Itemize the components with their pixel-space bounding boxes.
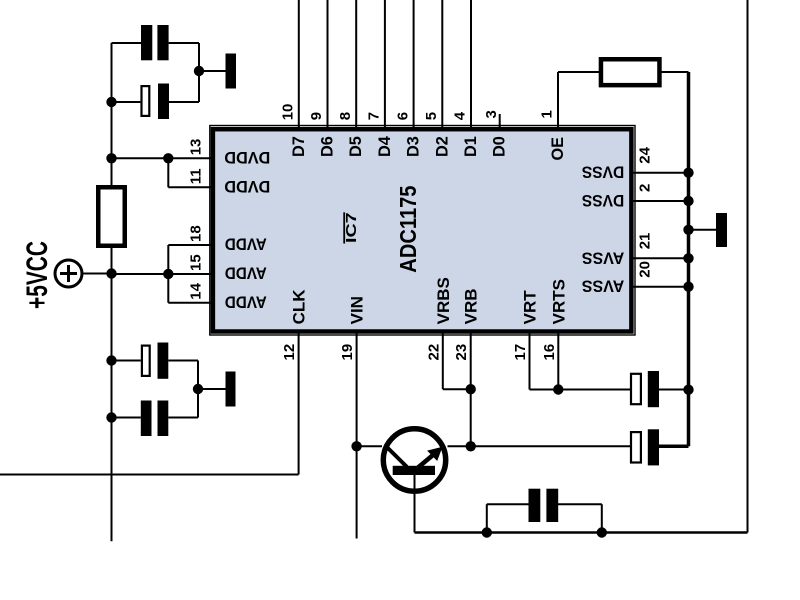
- svg-text:19: 19: [339, 344, 356, 361]
- svg-text:ADC1175: ADC1175: [395, 185, 421, 272]
- svg-text:D7: D7: [290, 136, 308, 157]
- svg-text:VIN: VIN: [348, 296, 367, 324]
- svg-text:22: 22: [425, 344, 442, 361]
- svg-text:D3: D3: [405, 136, 423, 157]
- svg-text:AVSS: AVSS: [582, 277, 625, 296]
- svg-text:CLK: CLK: [290, 289, 309, 325]
- svg-text:10: 10: [280, 104, 297, 121]
- svg-text:D0: D0: [491, 136, 509, 157]
- svg-text:20: 20: [637, 261, 654, 278]
- svg-text:VRBS: VRBS: [434, 277, 453, 324]
- svg-text:D2: D2: [433, 136, 451, 157]
- svg-text:21: 21: [637, 233, 654, 250]
- svg-text:DVSS: DVSS: [582, 163, 625, 182]
- svg-text:24: 24: [637, 146, 654, 163]
- svg-text:AVDD: AVDD: [225, 235, 267, 254]
- svg-text:15: 15: [188, 254, 205, 271]
- svg-text:3: 3: [483, 110, 500, 118]
- svg-text:4: 4: [452, 111, 469, 120]
- svg-text:D4: D4: [376, 136, 394, 157]
- svg-text:AVDD: AVDD: [225, 264, 267, 283]
- svg-text:VRT: VRT: [521, 290, 540, 325]
- svg-text:13: 13: [188, 139, 205, 156]
- svg-text:VRTS: VRTS: [549, 279, 568, 324]
- svg-text:AVDD: AVDD: [225, 292, 267, 311]
- svg-text:18: 18: [188, 225, 205, 242]
- svg-text:2: 2: [637, 184, 654, 192]
- svg-text:16: 16: [541, 344, 558, 361]
- svg-text:D5: D5: [347, 136, 365, 157]
- svg-text:12: 12: [281, 344, 298, 361]
- svg-text:14: 14: [188, 282, 205, 299]
- svg-text:5: 5: [423, 112, 440, 120]
- svg-text:DVDD: DVDD: [224, 148, 270, 167]
- svg-text:IC7: IC7: [343, 212, 360, 243]
- svg-text:8: 8: [337, 112, 354, 120]
- svg-text:DVDD: DVDD: [224, 177, 270, 196]
- svg-text:6: 6: [394, 112, 411, 120]
- svg-text:D6: D6: [319, 136, 337, 157]
- svg-text:23: 23: [453, 344, 470, 361]
- svg-text:VRB: VRB: [462, 288, 481, 324]
- svg-text:+5VCC: +5VCC: [21, 241, 54, 309]
- svg-text:D1: D1: [462, 136, 480, 157]
- svg-text:AVSS: AVSS: [582, 248, 625, 267]
- svg-text:9: 9: [308, 112, 325, 120]
- svg-text:OE: OE: [549, 137, 567, 161]
- svg-text:1: 1: [539, 110, 556, 118]
- svg-text:11: 11: [188, 168, 205, 184]
- svg-text:DVSS: DVSS: [582, 191, 625, 210]
- svg-text:7: 7: [366, 112, 383, 120]
- svg-text:17: 17: [512, 344, 529, 361]
